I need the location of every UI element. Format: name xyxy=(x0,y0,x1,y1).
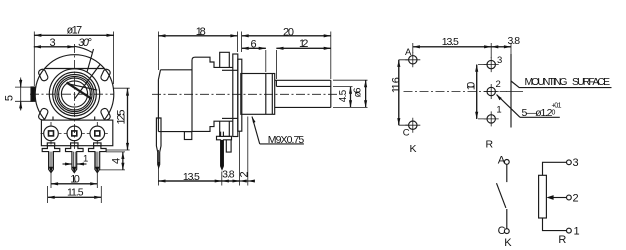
eyelet left circle xyxy=(44,126,59,141)
switch terminal C xyxy=(504,229,509,234)
eyelet right hole xyxy=(95,131,100,136)
dim 18 xyxy=(158,32,237,71)
svg-text:30°: 30° xyxy=(78,37,92,49)
mounting surface leader xyxy=(511,81,612,88)
svg-text:18: 18 xyxy=(196,26,206,38)
svg-text:A: A xyxy=(405,47,412,58)
eyelet left hole xyxy=(49,131,54,136)
svg-text:5—ø1.2: 5—ø1.2 xyxy=(522,107,553,119)
eyelet mid ticks xyxy=(64,132,85,134)
eyelet right ticks xyxy=(87,122,108,145)
mounting plate xyxy=(238,59,242,131)
svg-text:SURFACE: SURFACE xyxy=(572,77,610,88)
svg-text:13.5: 13.5 xyxy=(183,171,200,183)
svg-text:0: 0 xyxy=(552,110,556,117)
rear leg xyxy=(156,118,161,167)
can rib top xyxy=(222,69,238,71)
pot pin side xyxy=(217,132,232,170)
pot lead top xyxy=(543,162,567,175)
tab top-right xyxy=(100,68,111,81)
thread inner circle xyxy=(55,75,94,114)
svg-text:C: C xyxy=(498,225,506,237)
centerline vertical front view xyxy=(74,44,76,150)
hole C ticks xyxy=(405,118,420,133)
svg-text:12: 12 xyxy=(299,38,308,50)
svg-text:K: K xyxy=(409,143,416,155)
svg-text:C: C xyxy=(403,127,410,138)
svg-text:A: A xyxy=(498,155,506,167)
wiper arrow xyxy=(546,195,553,200)
svg-text:1: 1 xyxy=(496,104,501,115)
rear slab xyxy=(158,70,192,132)
dim 6 xyxy=(242,48,266,72)
tab top-left xyxy=(38,68,49,81)
eyelet mid circle xyxy=(67,126,82,141)
svg-text:3.8: 3.8 xyxy=(222,168,235,180)
switch blade xyxy=(497,183,506,208)
svg-text:3: 3 xyxy=(497,55,502,66)
shaft xyxy=(275,80,331,107)
chord flat line top xyxy=(45,68,104,70)
dim 5 xyxy=(15,78,33,111)
main can xyxy=(192,57,233,131)
hole leader 5-1.2 xyxy=(497,95,560,118)
eyelet collar mid xyxy=(71,143,78,146)
svg-text:5: 5 xyxy=(4,95,16,101)
tab bottom-right xyxy=(100,107,111,120)
dim 20 xyxy=(242,32,331,80)
switch terminal A xyxy=(504,160,509,165)
wiper lead xyxy=(554,197,567,199)
switch lead top xyxy=(506,164,508,182)
bushing end chamfer xyxy=(271,74,273,115)
rotation diagonal xyxy=(75,65,100,99)
dim 13.5 side xyxy=(158,150,221,186)
svg-text:K: K xyxy=(504,237,512,249)
shaft circle outer xyxy=(59,78,91,110)
dim 11.6 pcb xyxy=(399,60,408,125)
eyelet collar left xyxy=(47,143,54,146)
svg-text:20: 20 xyxy=(283,26,294,38)
shaft slot thick line xyxy=(67,82,92,98)
body circle ø17 xyxy=(35,55,114,120)
eyelet right circle xyxy=(90,126,105,141)
can rib bottom xyxy=(222,117,238,119)
pin 2 xyxy=(66,146,84,173)
dim 4 xyxy=(100,152,125,170)
dim 1 xyxy=(63,163,87,165)
switch lead bottom xyxy=(506,209,508,229)
svg-text:11.6: 11.6 xyxy=(390,77,402,93)
svg-text:+0.1: +0.1 xyxy=(552,103,562,110)
dim 12.5 xyxy=(106,88,130,150)
dim 4.5 xyxy=(333,87,353,108)
base inner tick left xyxy=(52,117,54,121)
svg-text:6: 6 xyxy=(251,39,257,51)
wedge thin line xyxy=(67,83,98,90)
pot lead bottom xyxy=(543,218,567,231)
30 deg arc xyxy=(75,46,93,52)
hole 3 ticks xyxy=(484,57,499,72)
dim 3.8 pcb xyxy=(491,43,511,54)
svg-text:11.5: 11.5 xyxy=(67,186,84,198)
svg-text:13.5: 13.5 xyxy=(442,36,459,48)
svg-text:2: 2 xyxy=(496,79,501,90)
bushing xyxy=(241,74,275,115)
centerline horizontal side view xyxy=(152,93,339,95)
svg-text:2: 2 xyxy=(239,171,251,177)
svg-text:3: 3 xyxy=(573,157,579,169)
hole 1 ticks xyxy=(484,111,499,126)
svg-text:2: 2 xyxy=(573,193,579,205)
dim 12 xyxy=(276,48,330,79)
svg-text:ø6: ø6 xyxy=(352,87,363,97)
thread circle xyxy=(53,72,97,116)
hole 2 xyxy=(487,87,495,95)
svg-text:ø17: ø17 xyxy=(67,24,83,36)
surface cross tick xyxy=(506,91,523,93)
M9X0.75 leader xyxy=(252,117,304,144)
pcb centerline xyxy=(404,91,507,93)
hole 3 xyxy=(487,60,495,68)
eyelet collar right xyxy=(94,143,101,146)
pot terminal 2 xyxy=(567,195,572,200)
can bottom tab xyxy=(220,121,230,136)
tab bottom-left xyxy=(38,107,49,120)
hole C xyxy=(409,121,417,129)
base inner tick right xyxy=(94,117,96,121)
eyelet mid hole xyxy=(72,131,77,136)
dim 11.6 xyxy=(48,186,102,203)
dim phi17 xyxy=(34,32,113,87)
dim 3 xyxy=(34,46,75,48)
svg-text:10: 10 xyxy=(465,82,477,91)
switch lug side xyxy=(226,140,231,152)
shaft knurl circle xyxy=(57,76,92,111)
pin 1 xyxy=(42,146,60,173)
dim phi6 xyxy=(333,80,368,107)
hole A ticks xyxy=(405,52,420,67)
hole 1 xyxy=(487,115,495,123)
svg-text:R: R xyxy=(558,234,566,246)
hole 2 ticks xyxy=(484,84,499,99)
eyelet left ticks xyxy=(41,122,62,145)
svg-text:1: 1 xyxy=(83,153,88,164)
svg-text:MOUNTING: MOUNTING xyxy=(525,77,568,88)
centerline horizontal front view xyxy=(30,93,114,95)
dim 3.8 side xyxy=(222,132,240,186)
flange xyxy=(233,54,238,137)
mounting surface line xyxy=(510,54,512,128)
svg-text:4.5: 4.5 xyxy=(338,89,349,102)
pot terminal 3 xyxy=(567,160,572,165)
30 deg reference diagonal xyxy=(87,49,94,72)
hole A xyxy=(409,56,417,64)
anti-rotation lug xyxy=(31,87,35,101)
svg-text:3: 3 xyxy=(49,37,55,49)
dim 13.5 pcb xyxy=(413,43,491,58)
svg-text:M9X0.75: M9X0.75 xyxy=(268,134,305,146)
dim 10 pcb xyxy=(477,65,488,119)
svg-text:1: 1 xyxy=(574,226,580,238)
bushing thread line xyxy=(265,74,267,115)
svg-text:R: R xyxy=(486,139,494,151)
svg-text:10: 10 xyxy=(70,174,80,186)
rear bottom crimp tab xyxy=(184,132,191,140)
pot body rect xyxy=(539,175,547,218)
base rectangle xyxy=(41,120,112,146)
bushing circle xyxy=(49,69,99,119)
dim 10 xyxy=(51,171,97,189)
pot terminal 1 xyxy=(567,228,572,233)
svg-text:12.5: 12.5 xyxy=(116,110,128,125)
shaft circle inner xyxy=(61,81,87,107)
svg-text:4: 4 xyxy=(110,158,122,164)
pin 3 xyxy=(89,146,107,173)
svg-text:3.8: 3.8 xyxy=(508,35,521,47)
dim 2 side xyxy=(240,117,254,186)
can top tab xyxy=(220,52,230,67)
